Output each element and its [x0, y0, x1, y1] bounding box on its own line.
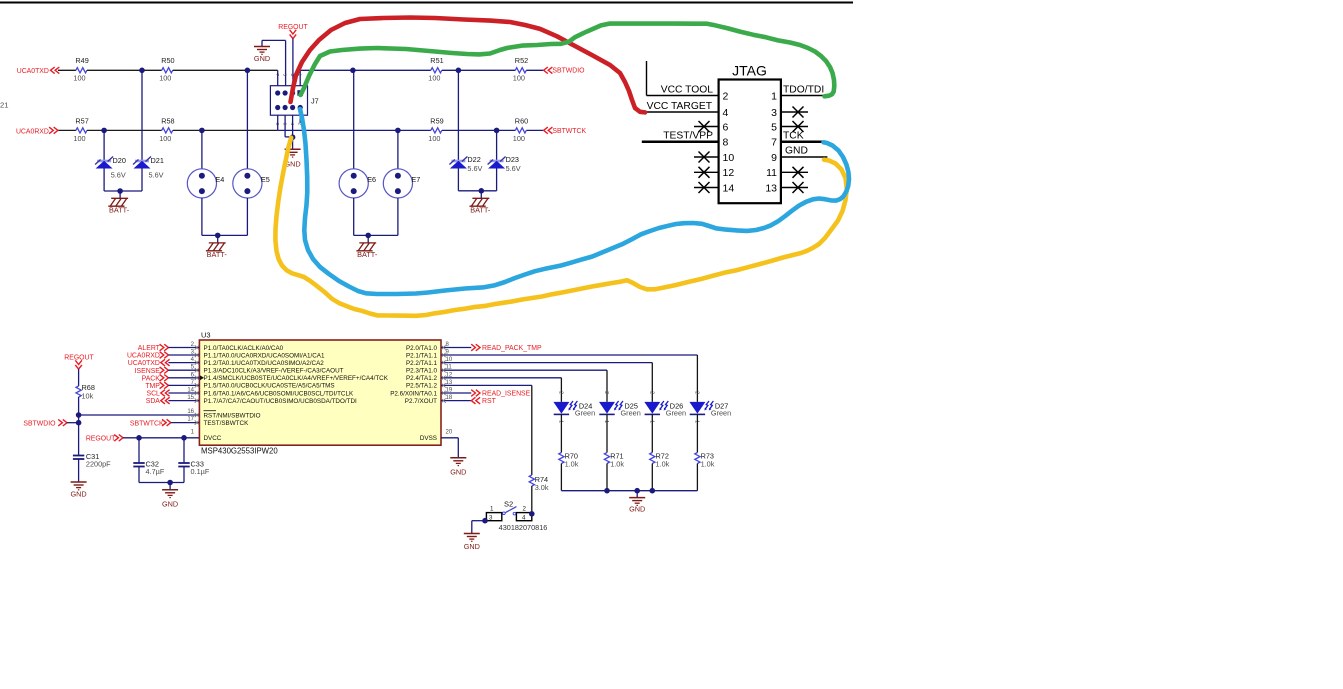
svg-text:0.1µF: 0.1µF: [191, 467, 210, 476]
svg-text:100: 100: [73, 74, 85, 83]
svg-text:ALERT: ALERT: [138, 345, 161, 352]
svg-text:9: 9: [771, 152, 777, 164]
svg-text:16: 16: [187, 409, 194, 415]
svg-text:5.6V: 5.6V: [467, 164, 482, 173]
svg-text:D23: D23: [506, 155, 519, 164]
svg-text:5.6V: 5.6V: [149, 170, 164, 179]
svg-text:U3: U3: [201, 331, 211, 340]
svg-text:VCC TOOL: VCC TOOL: [661, 84, 714, 95]
svg-text:R60: R60: [515, 116, 528, 125]
svg-text:7: 7: [275, 74, 280, 77]
svg-text:3: 3: [489, 514, 493, 521]
svg-text:10: 10: [446, 357, 453, 363]
svg-text:2: 2: [723, 90, 729, 102]
svg-text:17: 17: [187, 417, 194, 423]
svg-text:13: 13: [446, 380, 453, 386]
svg-text:1: 1: [603, 420, 609, 423]
svg-text:R51: R51: [430, 56, 443, 65]
svg-text:1: 1: [693, 420, 699, 423]
svg-text:13: 13: [765, 182, 777, 194]
svg-text:BATT-: BATT-: [470, 206, 491, 215]
svg-text:E6: E6: [367, 175, 376, 184]
svg-text:SBTWDIO: SBTWDIO: [552, 67, 585, 74]
svg-text:E5: E5: [261, 175, 270, 184]
svg-text:1.0k: 1.0k: [656, 460, 670, 469]
svg-text:5.6V: 5.6V: [506, 164, 521, 173]
svg-text:READ_PACK_TMP: READ_PACK_TMP: [482, 345, 542, 352]
svg-text:BATT-: BATT-: [109, 206, 130, 215]
svg-text:19: 19: [446, 388, 453, 394]
svg-text:12: 12: [446, 372, 453, 378]
svg-text:4: 4: [723, 107, 729, 119]
svg-text:P1.7/A7/CA7/CAOUT/UCB0SIMO/UCB: P1.7/A7/CA7/CAOUT/UCB0SIMO/UCB0SDA/TDO/T…: [204, 398, 358, 405]
svg-text:P1.2/TA0.1/UCA0TXD/UCA0SIMO/A2: P1.2/TA0.1/UCA0TXD/UCA0SIMO/A2/CA2: [204, 360, 325, 367]
svg-text:R58: R58: [161, 116, 174, 125]
svg-text:Green: Green: [666, 409, 686, 418]
svg-text:D21: D21: [151, 156, 164, 165]
svg-text:GND: GND: [785, 146, 808, 157]
svg-text:12: 12: [723, 167, 735, 179]
svg-text:15: 15: [187, 395, 194, 401]
svg-text:21: 21: [0, 101, 8, 110]
svg-text:P2.2/TA1.1: P2.2/TA1.1: [406, 360, 438, 367]
svg-text:D20: D20: [113, 156, 126, 165]
svg-text:100: 100: [513, 74, 525, 83]
svg-text:100: 100: [73, 134, 85, 143]
svg-text:ISENSE: ISENSE: [135, 368, 161, 375]
svg-text:VCC TARGET: VCC TARGET: [647, 101, 713, 112]
svg-text:1: 1: [490, 506, 494, 513]
svg-text:SBTWDIO: SBTWDIO: [23, 421, 56, 428]
svg-text:4: 4: [522, 514, 526, 521]
svg-text:SBTWTCK: SBTWTCK: [552, 128, 586, 135]
svg-text:PACK: PACK: [142, 375, 161, 382]
svg-text:5.6V: 5.6V: [111, 170, 126, 179]
svg-text:BATT-: BATT-: [357, 250, 378, 259]
svg-text:P1.0/TA0CLK/ACLK/A0/CA0: P1.0/TA0CLK/ACLK/A0/CA0: [204, 345, 284, 352]
svg-text:100: 100: [428, 134, 440, 143]
svg-text:P1.5/TA0.0/UCB0CLK/UCA0STE/A5/: P1.5/TA0.0/UCB0CLK/UCA0STE/A5/CA5/TMS: [204, 383, 335, 390]
svg-text:R52: R52: [515, 56, 528, 65]
svg-text:E7: E7: [411, 175, 420, 184]
svg-text:14: 14: [187, 388, 194, 394]
svg-text:100: 100: [159, 134, 171, 143]
svg-text:11: 11: [766, 167, 777, 179]
svg-text:GND: GND: [450, 467, 466, 476]
svg-text:READ_ISENSE: READ_ISENSE: [482, 391, 531, 398]
svg-text:P1.1/TA0.0/UCA0RXD/UCA0SOMI/A1: P1.1/TA0.0/UCA0RXD/UCA0SOMI/A1/CA1: [204, 352, 325, 359]
svg-text:J7: J7: [311, 97, 319, 106]
svg-text:TEST/SBWTCK: TEST/SBWTCK: [204, 420, 250, 427]
svg-text:1: 1: [771, 90, 777, 102]
svg-text:R59: R59: [430, 116, 443, 125]
svg-text:2: 2: [648, 391, 654, 394]
svg-text:4.7µF: 4.7µF: [146, 467, 165, 476]
svg-text:GND: GND: [70, 490, 86, 499]
svg-text:Green: Green: [621, 409, 641, 418]
svg-text:5: 5: [283, 74, 288, 77]
svg-text:SBTWTCK: SBTWTCK: [130, 421, 164, 428]
svg-text:10k: 10k: [82, 392, 94, 401]
svg-text:REGOUT: REGOUT: [278, 24, 308, 31]
svg-text:1.0k: 1.0k: [701, 460, 715, 469]
svg-text:R49: R49: [75, 56, 88, 65]
svg-text:7: 7: [771, 137, 777, 149]
svg-text:P2.1/TA1.1: P2.1/TA1.1: [406, 352, 438, 359]
svg-text:UCA0RXD: UCA0RXD: [127, 353, 160, 360]
svg-text:SDA: SDA: [146, 398, 161, 405]
svg-text:P2.4/TA1.2: P2.4/TA1.2: [406, 375, 438, 382]
svg-text:R57: R57: [75, 116, 88, 125]
svg-text:1.0k: 1.0k: [565, 460, 579, 469]
svg-text:Green: Green: [575, 409, 595, 418]
svg-text:P1.6/TA0.1/A6/CA6/UCB0SOMI/UCB: P1.6/TA0.1/A6/CA6/UCB0SOMI/UCB0SCL/TDI/T…: [204, 390, 354, 397]
svg-text:Green: Green: [711, 409, 731, 418]
svg-text:2: 2: [523, 506, 527, 513]
svg-text:UCA0RXD: UCA0RXD: [16, 128, 49, 135]
svg-text:P2.0/TA1.0: P2.0/TA1.0: [406, 345, 438, 352]
svg-text:JTAG: JTAG: [732, 63, 767, 79]
svg-text:MSP430G2553IPW20: MSP430G2553IPW20: [201, 446, 278, 455]
svg-text:14: 14: [723, 182, 735, 194]
svg-text:1.0k: 1.0k: [610, 460, 624, 469]
svg-text:RST/NMI/SBWTDIO: RST/NMI/SBWTDIO: [204, 412, 261, 419]
svg-text:2: 2: [693, 391, 699, 394]
svg-text:P2.5/TA1.2: P2.5/TA1.2: [406, 383, 438, 390]
svg-text:3: 3: [771, 107, 777, 119]
svg-text:D22: D22: [467, 155, 480, 164]
svg-text:2: 2: [603, 391, 609, 394]
svg-text:RST: RST: [482, 398, 497, 405]
svg-text:GND: GND: [162, 499, 178, 508]
svg-text:DVCC: DVCC: [204, 435, 222, 442]
svg-text:R50: R50: [161, 56, 174, 65]
svg-text:REGOUT: REGOUT: [64, 355, 94, 362]
svg-text:REGOUT: REGOUT: [86, 435, 116, 442]
svg-text:18: 18: [446, 395, 453, 401]
svg-text:2200pF: 2200pF: [86, 459, 111, 468]
svg-text:6: 6: [723, 121, 729, 133]
svg-text:P2.3/TA1.0: P2.3/TA1.0: [406, 368, 438, 375]
svg-text:TMP: TMP: [145, 383, 160, 390]
svg-text:2: 2: [557, 391, 563, 394]
svg-text:E4: E4: [215, 175, 224, 184]
svg-text:GND: GND: [254, 54, 270, 63]
svg-text:S2: S2: [504, 500, 513, 509]
svg-text:20: 20: [446, 430, 453, 436]
svg-text:1: 1: [648, 420, 654, 423]
svg-text:SCL: SCL: [146, 391, 160, 398]
svg-text:GND: GND: [629, 505, 645, 514]
svg-text:UCA0TXD: UCA0TXD: [128, 360, 160, 367]
svg-text:8: 8: [723, 137, 729, 149]
svg-text:P1.3/ADC10CLK/A3/VREF-/VEREF-/: P1.3/ADC10CLK/A3/VREF-/VEREF-/CA3/CAOUT: [204, 368, 344, 375]
svg-text:11: 11: [446, 365, 453, 371]
svg-text:TDO/TDI: TDO/TDI: [783, 85, 824, 96]
svg-text:100: 100: [428, 74, 440, 83]
svg-text:P2.7/XOUT: P2.7/XOUT: [405, 398, 437, 405]
svg-text:TEST/VPP: TEST/VPP: [663, 130, 713, 141]
svg-text:DVSS: DVSS: [420, 435, 437, 442]
svg-text:TCK: TCK: [783, 130, 804, 141]
svg-text:100: 100: [159, 74, 171, 83]
svg-text:430182070816: 430182070816: [499, 523, 548, 532]
svg-text:100: 100: [513, 134, 525, 143]
svg-text:P1.4/SMCLK/UCB0STE/UCA0CLK/A4/: P1.4/SMCLK/UCB0STE/UCA0CLK/A4/VREF+/VERE…: [204, 375, 389, 382]
svg-text:3.0k: 3.0k: [535, 483, 549, 492]
svg-text:5: 5: [771, 121, 777, 133]
svg-text:GND: GND: [464, 542, 480, 551]
svg-text:UCA0TXD: UCA0TXD: [17, 68, 49, 75]
svg-text:10: 10: [723, 152, 735, 164]
svg-text:P2.6/X0IN/TA0.1: P2.6/X0IN/TA0.1: [390, 390, 437, 397]
svg-text:1: 1: [557, 420, 563, 423]
svg-text:BATT-: BATT-: [207, 250, 228, 259]
